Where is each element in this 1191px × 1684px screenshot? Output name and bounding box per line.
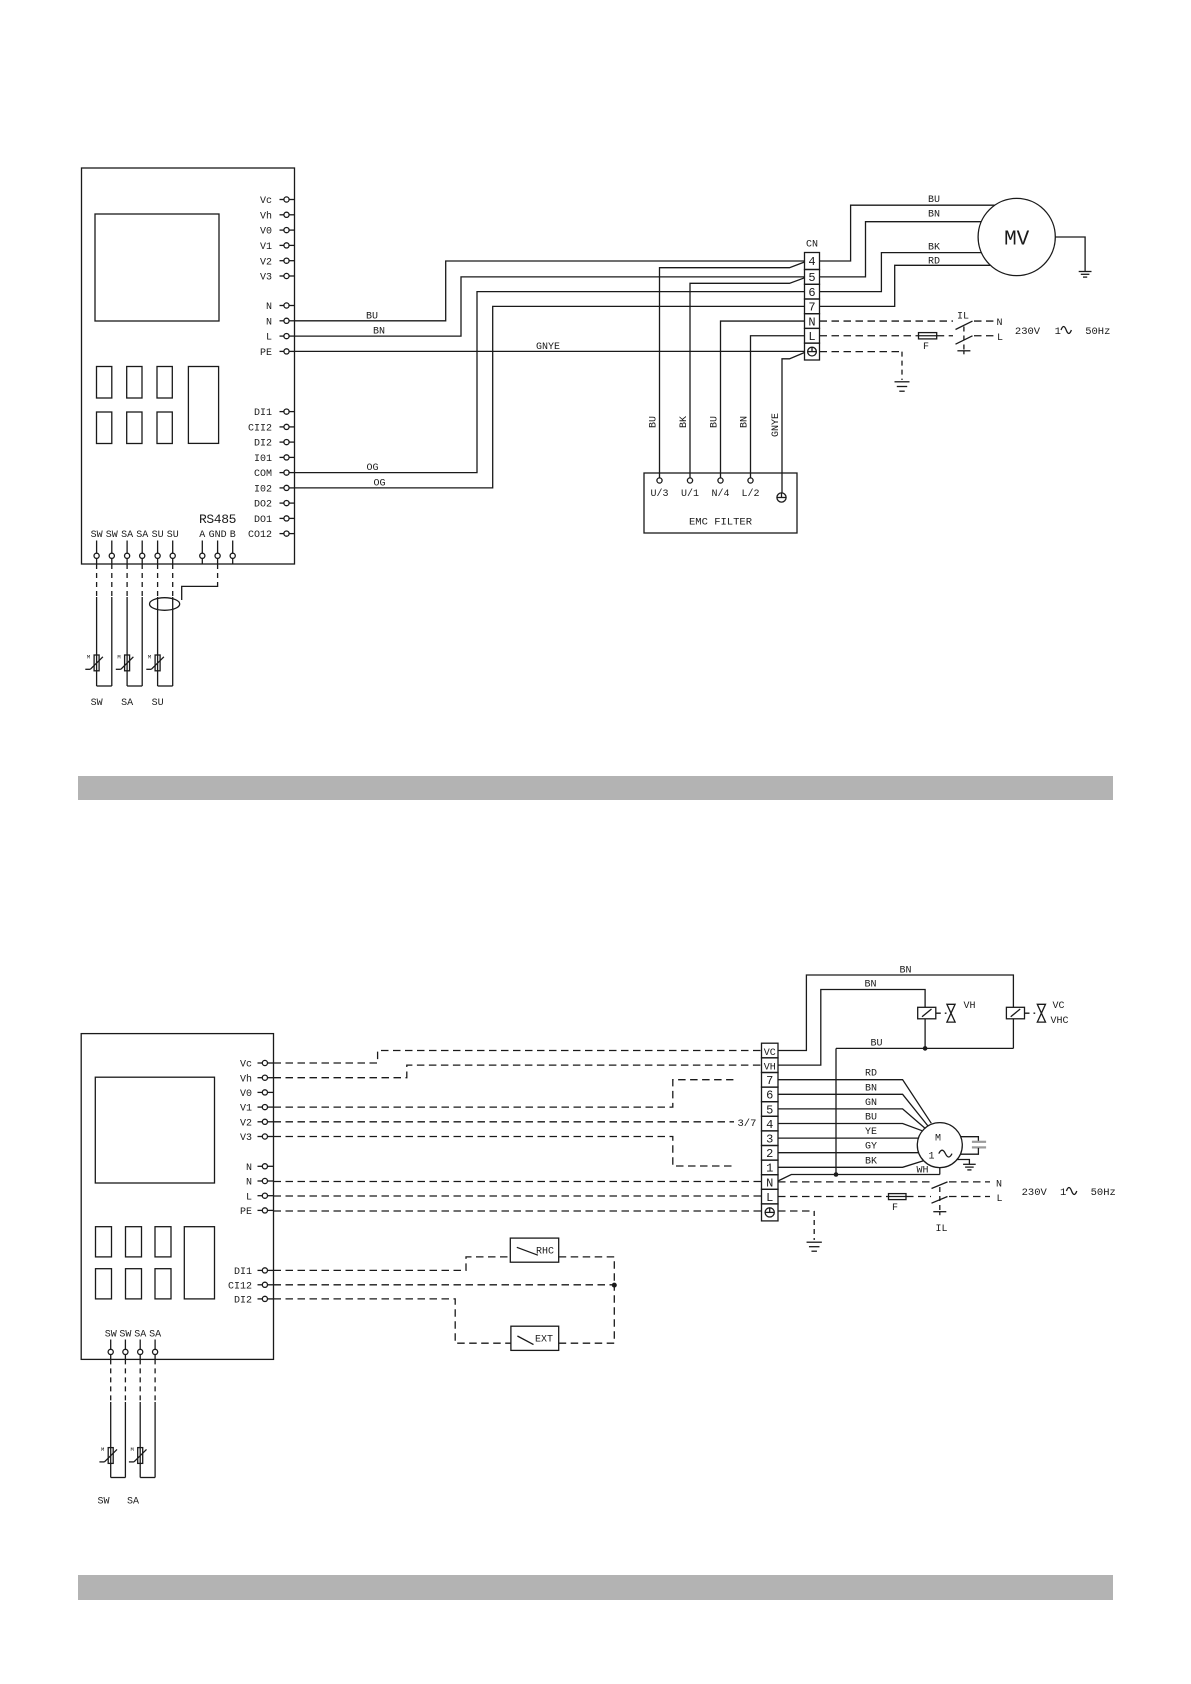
sine symbol xyxy=(1061,327,1071,334)
controller A1 keypad button row2-2 xyxy=(127,412,142,444)
wire L supply bottom (dashed) xyxy=(778,1196,889,1198)
switch IL link xyxy=(963,327,965,351)
controller A1 enclosure (bottom diagram) xyxy=(81,1034,273,1360)
svg-text:RHC: RHC xyxy=(536,1247,554,1258)
svg-text:V1: V1 xyxy=(260,242,272,253)
gray separator bar 2 xyxy=(78,1575,1113,1600)
wire BU (coils to N) xyxy=(924,1019,926,1049)
svg-text:N: N xyxy=(246,1163,252,1174)
wire BN (strip to motor) xyxy=(778,1094,928,1126)
svg-text:VH: VH xyxy=(764,1063,776,1074)
svg-text:VHC: VHC xyxy=(1051,1016,1069,1027)
ground (motor) xyxy=(963,1163,976,1165)
wire GNYE (PE to CN earth) xyxy=(295,350,805,352)
svg-text:CN: CN xyxy=(806,240,818,251)
wire N supply bottom (dashed) xyxy=(778,1181,931,1183)
wire RHC to junction (dashed) xyxy=(559,1257,615,1286)
svg-text:EMC FILTER: EMC FILTER xyxy=(689,517,753,529)
wire BN (L to CN 5) xyxy=(295,277,805,336)
svg-text:5: 5 xyxy=(808,271,815,285)
wire strip earth to ground (dashed) xyxy=(778,1210,814,1212)
svg-text:L/2: L/2 xyxy=(741,488,759,500)
svg-text:SW: SW xyxy=(105,1329,117,1340)
wire BU (N to CN 4) xyxy=(295,261,805,321)
svg-text:50Hz: 50Hz xyxy=(1085,326,1110,338)
svg-text:BU: BU xyxy=(865,1113,877,1124)
gray separator bar 1 xyxy=(78,776,1113,800)
wire BU (CN 4 to MV) xyxy=(820,205,996,261)
EMC filter terminal L/2 xyxy=(748,478,753,483)
svg-text:L: L xyxy=(997,333,1003,344)
svg-text:N: N xyxy=(997,318,1003,329)
strip terminal 3 xyxy=(762,1131,779,1146)
svg-text:GNYE: GNYE xyxy=(771,413,782,437)
fuse F xyxy=(919,333,937,339)
fuse F (bottom) xyxy=(889,1194,907,1200)
strip terminal 2 xyxy=(762,1146,779,1161)
svg-text:50Hz: 50Hz xyxy=(1091,1187,1116,1199)
svg-text:SU: SU xyxy=(152,530,164,541)
thermistor sensor SW xyxy=(94,655,99,671)
strip terminal 4 xyxy=(762,1116,779,1131)
svg-text:5: 5 xyxy=(766,1103,773,1117)
svg-text:RS485: RS485 xyxy=(199,512,236,527)
svg-text:Vh: Vh xyxy=(240,1073,252,1085)
svg-text:DI1: DI1 xyxy=(254,408,272,419)
relay coil VC xyxy=(1006,1007,1024,1019)
CN terminal L xyxy=(805,328,820,343)
EMC filter terminal U/3 xyxy=(657,478,662,483)
svg-text:N: N xyxy=(808,315,815,329)
svg-text:DI2: DI2 xyxy=(234,1296,252,1307)
svg-text:CII2: CII2 xyxy=(248,424,272,435)
svg-text:CO12: CO12 xyxy=(248,530,272,541)
wire BU (strip to motor) xyxy=(778,1124,922,1131)
svg-text:BN: BN xyxy=(865,1083,877,1094)
svg-text:BU: BU xyxy=(366,311,378,322)
svg-text:L: L xyxy=(246,1192,252,1203)
svg-text:M: M xyxy=(117,654,120,661)
wire DI2 to EXT (dashed) xyxy=(274,1299,511,1343)
svg-text:DI2: DI2 xyxy=(254,439,272,450)
svg-text:VC: VC xyxy=(1053,1001,1065,1012)
wire RD (strip to motor) xyxy=(778,1080,931,1124)
CN terminal 7 xyxy=(805,299,820,314)
wire RD (CN 7 to MV) xyxy=(820,265,991,306)
wire YE (strip to motor) xyxy=(778,1137,919,1139)
svg-text:4: 4 xyxy=(766,1118,773,1132)
svg-text:M: M xyxy=(148,654,151,661)
svg-text:BN: BN xyxy=(928,210,940,221)
svg-text:BU: BU xyxy=(871,1038,883,1049)
switch IL pole L (bottom) xyxy=(932,1197,948,1204)
svg-text:IL: IL xyxy=(936,1224,948,1235)
svg-text:SA: SA xyxy=(149,1329,161,1340)
svg-text:SU: SU xyxy=(152,698,164,709)
link coil-valve VC (dashed) xyxy=(1025,1012,1036,1014)
svg-text:V3: V3 xyxy=(260,273,272,284)
svg-text:BU: BU xyxy=(710,416,721,428)
strip terminal VH xyxy=(762,1058,779,1073)
controller A1 display (bottom) xyxy=(95,1077,214,1183)
svg-text:1: 1 xyxy=(1055,326,1061,338)
switch IL pole N xyxy=(956,321,973,329)
CN terminal 4 xyxy=(805,253,820,270)
svg-text:V2: V2 xyxy=(260,257,272,268)
CN terminal 5 xyxy=(805,270,820,285)
strip terminal earth xyxy=(762,1204,779,1221)
valve VH xyxy=(947,1004,955,1013)
controller A1 keypad button row2-1 xyxy=(97,412,112,444)
svg-text:GNYE: GNYE xyxy=(536,342,560,353)
svg-text:CI12: CI12 xyxy=(228,1281,252,1292)
wire CI12 to junction (dashed) xyxy=(274,1284,615,1286)
wire L to strip L (dashed) xyxy=(274,1195,762,1197)
wire GN (strip to motor) xyxy=(778,1109,925,1129)
strip terminal 1 xyxy=(762,1160,779,1175)
cable shield ellipse xyxy=(150,598,180,611)
ground (PE bottom) xyxy=(807,1241,822,1243)
wire Vc to VC (dashed) xyxy=(274,1051,762,1064)
svg-text:I02: I02 xyxy=(254,485,272,496)
svg-text:DO2: DO2 xyxy=(254,500,272,511)
strip terminal 6 xyxy=(762,1087,779,1102)
wire pair to sensor SU xyxy=(157,564,159,597)
svg-text:MV: MV xyxy=(1004,228,1030,251)
svg-text:U/3: U/3 xyxy=(650,488,668,500)
wire BU (EMC N/4 to CN N) xyxy=(721,321,805,478)
svg-text:RD: RD xyxy=(928,257,940,268)
svg-text:OG: OG xyxy=(374,478,386,489)
svg-text:BN: BN xyxy=(865,980,877,991)
EMC filter terminal N/4 xyxy=(718,478,723,483)
svg-text:SU: SU xyxy=(167,530,179,541)
capacitor C plates xyxy=(972,1141,986,1143)
wire BN (CN 5 to MV) xyxy=(820,222,982,277)
CN terminal 6 xyxy=(805,284,820,299)
svg-text:RD: RD xyxy=(865,1069,877,1080)
controller keypad button row1-1 (bottom) xyxy=(96,1227,112,1257)
svg-text:BK: BK xyxy=(928,243,940,254)
svg-text:SW: SW xyxy=(91,530,103,541)
thermistor sensor SA xyxy=(125,655,130,671)
wire V3 stub (dashed) xyxy=(274,1137,734,1167)
thermistor sensor SA (bottom) xyxy=(138,1448,143,1464)
CN terminal N xyxy=(805,314,820,329)
svg-text:V0: V0 xyxy=(240,1089,252,1100)
strip terminal N xyxy=(762,1175,779,1190)
svg-text:M: M xyxy=(131,1446,134,1453)
strip terminal 5 xyxy=(762,1102,779,1117)
wire pair to sensor SW (bottom) xyxy=(110,1359,112,1402)
wire L supply (dashed) xyxy=(820,335,919,337)
svg-text:3: 3 xyxy=(766,1133,773,1147)
link coil-valve VH (dashed) xyxy=(936,1012,947,1014)
junction dot coil VH xyxy=(923,1046,928,1051)
wire BN (EMC L/2 to CN L) xyxy=(751,336,805,478)
switch IL pole L xyxy=(956,336,973,344)
svg-text:BN: BN xyxy=(900,965,912,976)
svg-text:N: N xyxy=(266,302,272,313)
wire N to strip N (dashed) xyxy=(274,1181,762,1183)
svg-text:IL: IL xyxy=(957,312,969,323)
svg-text:GN: GN xyxy=(865,1098,877,1109)
svg-text:L: L xyxy=(266,333,272,344)
svg-text:N: N xyxy=(996,1179,1002,1190)
wire WH (motor to strip N) xyxy=(939,1168,941,1175)
EMC filter box xyxy=(644,473,797,533)
wire motor to capacitor top xyxy=(961,1137,979,1142)
wire GY (strip to motor) xyxy=(778,1152,919,1154)
svg-text:DO1: DO1 xyxy=(254,515,272,526)
motor M xyxy=(917,1123,962,1168)
svg-text:Vh: Vh xyxy=(260,210,272,222)
controller keypad button row1-3 (bottom) xyxy=(155,1227,171,1257)
svg-text:N/4: N/4 xyxy=(711,488,729,500)
svg-text:L: L xyxy=(808,330,815,344)
svg-text:YE: YE xyxy=(865,1127,877,1138)
svg-text:BU: BU xyxy=(928,195,940,206)
wire pair to sensor SA (bottom) xyxy=(139,1359,141,1402)
svg-text:6: 6 xyxy=(808,286,815,300)
svg-text:V1: V1 xyxy=(240,1104,252,1115)
svg-text:SW: SW xyxy=(106,530,118,541)
svg-text:BU: BU xyxy=(649,416,660,428)
wire V1 stub (dashed) xyxy=(274,1080,734,1107)
motor MV xyxy=(978,198,1055,275)
EMC filter terminal U/1 xyxy=(687,478,692,483)
svg-text:2: 2 xyxy=(766,1147,773,1161)
controller keypad button large (bottom) xyxy=(184,1227,214,1299)
svg-text:VH: VH xyxy=(964,1001,976,1012)
svg-text:1: 1 xyxy=(928,1151,934,1162)
controller keypad button row1-2 (bottom) xyxy=(126,1227,142,1257)
svg-text:PE: PE xyxy=(260,348,272,359)
controller keypad button row2-1 (bottom) xyxy=(96,1269,112,1299)
svg-text:PE: PE xyxy=(240,1207,252,1218)
valve VC/VHC xyxy=(1037,1004,1045,1013)
svg-text:BK: BK xyxy=(679,416,690,428)
switch IL pole N (bottom) xyxy=(932,1182,948,1189)
wire PE to strip earth (dashed) xyxy=(274,1210,762,1212)
wire BK (EMC U/1 to CN 5) xyxy=(690,278,805,478)
contact RHC xyxy=(510,1238,558,1262)
wire BU (EMC U/3 to CN 4) xyxy=(660,262,805,478)
controller A1 keypad button row1-2 xyxy=(127,367,142,399)
svg-text:M: M xyxy=(935,1134,941,1145)
wire BN (VC cell to valve coil VC) xyxy=(778,975,1013,1051)
svg-text:230V: 230V xyxy=(1015,326,1041,338)
svg-text:B: B xyxy=(230,530,236,541)
controller A1 keypad button row1-3 xyxy=(157,367,172,399)
svg-text:6: 6 xyxy=(766,1089,773,1103)
svg-text:BN: BN xyxy=(373,327,385,338)
svg-text:F: F xyxy=(923,342,929,353)
svg-text:DI1: DI1 xyxy=(234,1267,252,1278)
thermistor sensor SW (bottom) xyxy=(108,1448,113,1464)
svg-text:VC: VC xyxy=(764,1048,776,1059)
wire RS485 GND shield link xyxy=(217,564,219,583)
svg-text:EXT: EXT xyxy=(535,1335,553,1346)
svg-text:Vc: Vc xyxy=(240,1060,252,1071)
wire BK (CN 6 to MV) xyxy=(820,253,982,292)
controller keypad button row2-2 (bottom) xyxy=(126,1269,142,1299)
CN terminal earth xyxy=(805,343,820,360)
contact EXT xyxy=(511,1326,559,1350)
wire capacitor to motor bottom xyxy=(961,1148,979,1154)
svg-text:3/7: 3/7 xyxy=(738,1118,757,1130)
controller A1 display xyxy=(95,214,219,321)
ground (PE top) xyxy=(895,381,910,383)
svg-text:BK: BK xyxy=(865,1156,877,1167)
svg-text:Vc: Vc xyxy=(260,196,272,207)
wire motor to ground xyxy=(957,1160,969,1165)
svg-text:4: 4 xyxy=(808,255,815,269)
svg-text:GY: GY xyxy=(865,1142,877,1153)
svg-text:OG: OG xyxy=(367,463,379,474)
svg-text:1: 1 xyxy=(766,1162,773,1176)
svg-text:F: F xyxy=(892,1203,898,1214)
svg-text:A: A xyxy=(199,530,205,541)
wire pair to sensor SA xyxy=(126,564,128,597)
wire DI1 to RHC (dashed) xyxy=(274,1257,511,1271)
wire MV to ground xyxy=(1055,237,1085,271)
wire V2 stub (dashed) xyxy=(274,1121,735,1123)
svg-text:L: L xyxy=(766,1191,773,1205)
controller A1 enclosure (top diagram) xyxy=(82,168,295,564)
wire N supply (dashed) xyxy=(820,320,954,322)
svg-text:1: 1 xyxy=(1060,1187,1066,1199)
sine symbol (bottom) xyxy=(1066,1188,1076,1195)
wire GNYE (EMC earth to CN earth) xyxy=(782,353,805,493)
svg-text:SA: SA xyxy=(121,530,133,541)
svg-text:COM: COM xyxy=(254,469,272,480)
controller keypad button row2-3 (bottom) xyxy=(155,1269,171,1299)
junction dot DI xyxy=(612,1283,617,1288)
svg-text:L: L xyxy=(997,1194,1003,1205)
svg-text:7: 7 xyxy=(808,301,815,315)
wire pair to sensor SW xyxy=(96,564,98,597)
EMC filter earth terminal xyxy=(777,493,786,502)
wire OG (I02 to CN 7) xyxy=(295,306,805,488)
wire Vh to VH (dashed) xyxy=(274,1065,762,1078)
svg-text:U/1: U/1 xyxy=(681,488,699,500)
svg-text:SA: SA xyxy=(134,1329,146,1340)
controller A1 keypad button large xyxy=(188,367,218,444)
sine symbol (motor) xyxy=(939,1150,952,1157)
svg-text:V3: V3 xyxy=(240,1133,252,1144)
svg-text:N: N xyxy=(266,317,272,328)
svg-text:SW: SW xyxy=(91,698,103,709)
svg-text:V0: V0 xyxy=(260,227,272,238)
switch IL link (bottom) xyxy=(939,1187,941,1210)
controller A1 keypad button row2-3 xyxy=(157,412,172,444)
svg-text:V2: V2 xyxy=(240,1118,252,1129)
svg-text:M: M xyxy=(101,1446,104,1453)
svg-text:WH: WH xyxy=(917,1166,929,1177)
svg-text:7: 7 xyxy=(766,1074,773,1088)
svg-text:M: M xyxy=(87,654,90,661)
svg-text:SA: SA xyxy=(127,1497,139,1508)
ground (MV) xyxy=(1079,271,1092,273)
svg-text:SW: SW xyxy=(98,1497,110,1508)
junction dot WH/BU xyxy=(834,1172,839,1177)
svg-text:I01: I01 xyxy=(254,454,272,465)
thermistor sensor SU xyxy=(155,655,160,671)
svg-text:BN: BN xyxy=(740,416,751,428)
strip terminal L xyxy=(762,1189,779,1204)
relay coil VH xyxy=(918,1007,936,1019)
wire BN (VH cell to valve coil VH) xyxy=(778,990,925,1066)
svg-text:SA: SA xyxy=(136,530,148,541)
strip terminal 7 xyxy=(762,1073,779,1088)
svg-text:SA: SA xyxy=(121,698,133,709)
controller A1 keypad button row1-1 xyxy=(97,367,112,399)
svg-text:N: N xyxy=(766,1176,773,1190)
wire OG (COM to CN 6) xyxy=(295,292,805,473)
wire EXT to junction (dashed) xyxy=(559,1285,615,1343)
svg-text:N: N xyxy=(246,1178,252,1189)
wire PE to ground (dashed) xyxy=(820,351,903,353)
wire BK (strip to motor) xyxy=(778,1161,924,1168)
svg-text:SW: SW xyxy=(119,1329,131,1340)
strip terminal VC xyxy=(762,1043,779,1058)
svg-text:GND: GND xyxy=(209,530,227,541)
svg-text:230V: 230V xyxy=(1022,1187,1048,1199)
